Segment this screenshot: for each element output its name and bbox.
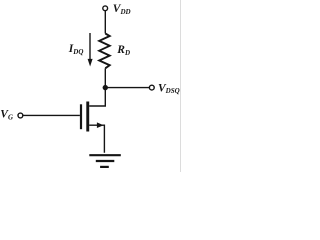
drain lead [89,88,105,106]
resistor RD [99,34,110,69]
svg-text:IDQ: IDQ [68,43,84,56]
label VDSQ [158,82,180,95]
wire node to output terminal [105,87,149,89]
node dot (drain junction) [103,85,108,90]
ground [89,155,121,167]
transistor Q1 gate bar [80,104,82,129]
gate wire [23,114,80,116]
supply terminal VDD [103,6,108,11]
gate terminal VG [18,113,23,118]
label IDQ [68,43,84,56]
label VG [0,109,13,122]
svg-text:VDSQ: VDSQ [158,82,180,95]
wire RD to drain node [104,68,106,87]
transistor Q1 channel bar [86,102,89,132]
label VDD [113,3,131,16]
svg-text:VDD: VDD [113,3,131,16]
svg-text:RD: RD [116,44,130,57]
current arrow IDQ [88,33,93,67]
output terminal VDSQ [149,85,154,90]
wire VDD to RD [104,11,106,34]
source lead [89,122,104,152]
label RD [116,44,130,57]
svg-text:VG: VG [0,109,13,122]
page border (faint right edge) [180,0,182,172]
